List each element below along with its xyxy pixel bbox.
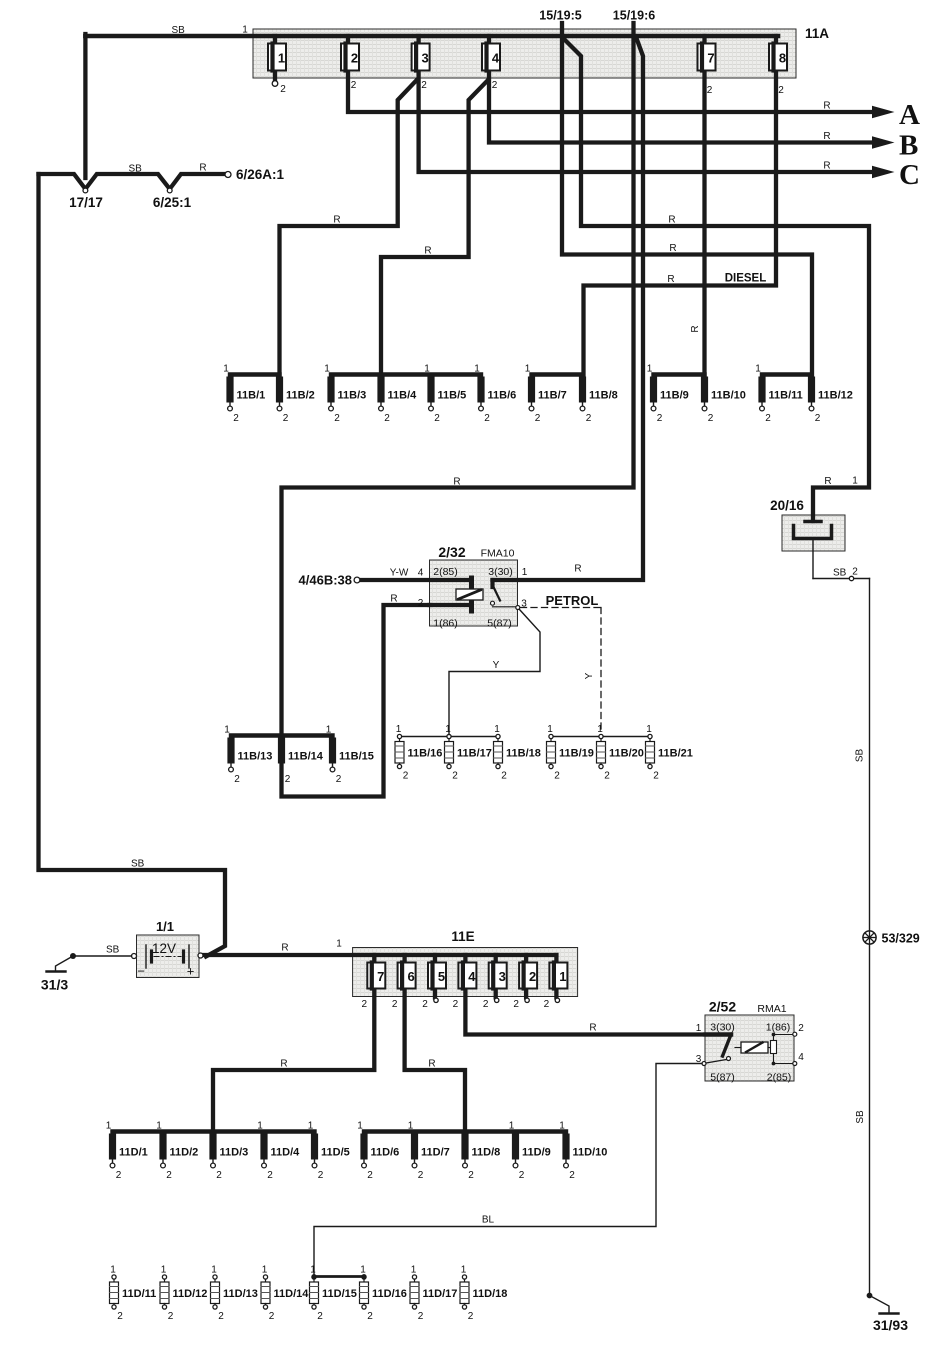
svg-text:2: 2	[367, 1311, 373, 1322]
svg-text:1(86): 1(86)	[433, 618, 458, 630]
svg-text:2: 2	[519, 1170, 525, 1181]
svg-text:6: 6	[407, 969, 414, 984]
svg-text:+: +	[187, 964, 195, 979]
svg-text:2: 2	[218, 1311, 224, 1322]
svg-text:2: 2	[384, 413, 390, 424]
svg-text:R: R	[823, 101, 830, 112]
svg-text:FMA10: FMA10	[481, 548, 515, 560]
svg-text:1: 1	[223, 364, 229, 375]
svg-text:1: 1	[308, 1121, 314, 1132]
svg-text:11D/13: 11D/13	[223, 1288, 258, 1300]
svg-text:11B/5: 11B/5	[438, 390, 467, 402]
svg-text:2: 2	[267, 1170, 273, 1181]
svg-text:1: 1	[242, 25, 248, 36]
svg-text:1: 1	[522, 567, 528, 578]
svg-text:11B/15: 11B/15	[339, 751, 374, 763]
svg-text:2: 2	[285, 774, 291, 785]
svg-text:SB: SB	[172, 25, 186, 36]
svg-text:11D/7: 11D/7	[421, 1147, 450, 1159]
svg-text:15/19:6: 15/19:6	[613, 9, 655, 23]
svg-text:11D/2: 11D/2	[170, 1147, 199, 1159]
svg-text:31/3: 31/3	[41, 977, 68, 993]
svg-text:11B/19: 11B/19	[559, 748, 594, 760]
svg-text:2: 2	[234, 774, 240, 785]
svg-text:11B/16: 11B/16	[408, 748, 443, 760]
svg-text:11B/3: 11B/3	[338, 390, 367, 402]
svg-text:2: 2	[334, 413, 340, 424]
svg-text:2: 2	[708, 413, 714, 424]
svg-text:SB: SB	[129, 164, 143, 175]
svg-text:2: 2	[765, 413, 771, 424]
svg-text:4: 4	[798, 1052, 804, 1063]
svg-text:1: 1	[326, 725, 332, 736]
svg-text:11D/9: 11D/9	[522, 1147, 551, 1159]
svg-text:Y: Y	[584, 672, 595, 679]
svg-text:1: 1	[852, 476, 858, 487]
svg-text:1: 1	[597, 724, 603, 735]
svg-text:1(86): 1(86)	[766, 1022, 791, 1034]
svg-text:1: 1	[357, 1121, 363, 1132]
svg-text:11D/17: 11D/17	[423, 1288, 458, 1300]
svg-text:5: 5	[438, 969, 445, 984]
svg-text:7: 7	[377, 969, 384, 984]
svg-text:11B/13: 11B/13	[238, 751, 273, 763]
svg-text:11B/8: 11B/8	[589, 390, 618, 402]
svg-text:1: 1	[310, 1265, 316, 1276]
svg-text:4: 4	[418, 568, 424, 579]
svg-text:RMA1: RMA1	[757, 1003, 786, 1015]
svg-text:2: 2	[569, 1170, 575, 1181]
svg-text:11B/20: 11B/20	[609, 748, 644, 760]
svg-text:11B/10: 11B/10	[711, 390, 746, 402]
svg-text:R: R	[281, 943, 288, 954]
svg-text:11E: 11E	[451, 929, 474, 944]
svg-text:1: 1	[559, 969, 566, 984]
svg-text:2: 2	[166, 1170, 172, 1181]
svg-text:3: 3	[499, 969, 506, 984]
svg-text:SB: SB	[106, 945, 120, 956]
svg-text:Y: Y	[493, 660, 500, 671]
svg-text:1: 1	[106, 1121, 112, 1132]
svg-text:17/17: 17/17	[69, 195, 103, 210]
svg-text:3: 3	[696, 1054, 702, 1065]
svg-text:2: 2	[468, 1311, 474, 1322]
svg-text:1: 1	[262, 1265, 268, 1276]
svg-text:11D/15: 11D/15	[322, 1288, 357, 1300]
svg-text:1: 1	[424, 364, 430, 375]
svg-text:1: 1	[509, 1121, 515, 1132]
svg-text:1: 1	[411, 1265, 417, 1276]
svg-text:R: R	[667, 274, 674, 285]
svg-text:3: 3	[521, 599, 527, 610]
svg-text:11D/6: 11D/6	[371, 1147, 400, 1159]
svg-text:2: 2	[604, 771, 610, 782]
svg-text:2: 2	[418, 1170, 424, 1181]
svg-text:1: 1	[547, 724, 553, 735]
svg-text:2: 2	[403, 771, 409, 782]
svg-text:2: 2	[367, 1170, 373, 1181]
svg-text:2: 2	[535, 413, 541, 424]
svg-text:6/26A:1: 6/26A:1	[236, 167, 285, 182]
svg-text:R: R	[333, 215, 340, 226]
svg-text:1: 1	[360, 1265, 366, 1276]
svg-text:2: 2	[501, 771, 507, 782]
svg-text:2: 2	[351, 80, 357, 91]
svg-text:11B/9: 11B/9	[660, 390, 689, 402]
svg-text:SB: SB	[131, 859, 145, 870]
svg-text:R: R	[574, 564, 581, 575]
svg-text:11B/17: 11B/17	[457, 748, 492, 760]
svg-text:2: 2	[418, 1311, 424, 1322]
svg-text:2: 2	[778, 85, 784, 96]
svg-text:2(85): 2(85)	[767, 1072, 792, 1084]
svg-text:11B/11: 11B/11	[769, 390, 803, 402]
svg-text:1: 1	[396, 724, 402, 735]
svg-text:1: 1	[461, 1265, 467, 1276]
svg-text:2: 2	[351, 51, 358, 66]
svg-text:R: R	[824, 476, 831, 487]
svg-text:1: 1	[474, 364, 480, 375]
svg-text:2: 2	[216, 1170, 222, 1181]
svg-text:20/16: 20/16	[770, 498, 804, 513]
svg-text:1: 1	[494, 724, 500, 735]
svg-text:11D/1: 11D/1	[119, 1147, 148, 1159]
svg-text:2: 2	[653, 771, 659, 782]
svg-text:1: 1	[755, 364, 761, 375]
svg-text:1: 1	[278, 51, 285, 66]
svg-text:11B/18: 11B/18	[506, 748, 541, 760]
svg-text:2: 2	[434, 413, 440, 424]
svg-text:11D/3: 11D/3	[220, 1147, 249, 1159]
svg-text:2: 2	[852, 567, 858, 578]
svg-text:15/19:5: 15/19:5	[539, 9, 581, 23]
svg-text:53/329: 53/329	[882, 932, 920, 946]
svg-text:2(85): 2(85)	[433, 566, 458, 578]
svg-text:5(87): 5(87)	[487, 618, 512, 630]
svg-text:SB: SB	[855, 1110, 866, 1124]
svg-text:1: 1	[257, 1121, 263, 1132]
svg-text:2: 2	[116, 1170, 122, 1181]
svg-text:11D/12: 11D/12	[173, 1288, 208, 1300]
svg-text:11B/2: 11B/2	[286, 390, 315, 402]
svg-text:1: 1	[647, 364, 653, 375]
svg-text:3(30): 3(30)	[488, 566, 513, 578]
svg-text:2: 2	[544, 999, 550, 1010]
svg-text:2: 2	[707, 85, 713, 96]
svg-text:7: 7	[707, 51, 714, 66]
svg-text:2: 2	[483, 999, 489, 1010]
svg-text:SB: SB	[833, 568, 847, 579]
svg-text:2: 2	[362, 999, 368, 1010]
svg-text:2: 2	[318, 1170, 324, 1181]
svg-text:4: 4	[468, 969, 476, 984]
svg-text:Y-W: Y-W	[390, 568, 409, 579]
svg-text:4/46B:38: 4/46B:38	[299, 573, 352, 588]
svg-text:C: C	[899, 159, 920, 191]
svg-text:1: 1	[525, 364, 531, 375]
svg-text:1: 1	[324, 364, 330, 375]
svg-text:1: 1	[110, 1265, 116, 1276]
svg-text:2: 2	[815, 413, 821, 424]
svg-text:2: 2	[513, 999, 519, 1010]
svg-text:2: 2	[418, 598, 424, 609]
svg-text:2: 2	[554, 771, 560, 782]
svg-text:R: R	[424, 246, 431, 257]
svg-text:1: 1	[445, 724, 451, 735]
svg-text:2: 2	[168, 1311, 174, 1322]
svg-text:1: 1	[646, 724, 652, 735]
svg-text:2: 2	[117, 1311, 123, 1322]
svg-text:2: 2	[233, 413, 239, 424]
svg-text:R: R	[280, 1059, 287, 1070]
svg-text:R: R	[669, 243, 676, 254]
svg-text:2: 2	[422, 999, 428, 1010]
svg-text:11D/18: 11D/18	[473, 1288, 508, 1300]
svg-text:2: 2	[317, 1311, 323, 1322]
svg-text:R: R	[668, 215, 675, 226]
svg-text:11A: 11A	[805, 26, 829, 41]
svg-text:1: 1	[156, 1121, 162, 1132]
svg-text:1: 1	[211, 1265, 217, 1276]
svg-text:R: R	[589, 1023, 596, 1034]
svg-text:1: 1	[559, 1121, 565, 1132]
svg-text:11B/12: 11B/12	[818, 390, 853, 402]
svg-text:1: 1	[161, 1265, 167, 1276]
svg-text:2: 2	[392, 999, 398, 1010]
svg-text:2: 2	[280, 84, 286, 95]
svg-text:R: R	[823, 131, 830, 142]
svg-text:BL: BL	[482, 1215, 495, 1226]
svg-text:2: 2	[657, 413, 663, 424]
svg-text:R: R	[428, 1059, 435, 1070]
svg-text:R: R	[390, 594, 397, 605]
svg-text:11B/21: 11B/21	[658, 748, 693, 760]
svg-text:2: 2	[492, 80, 498, 91]
svg-text:2: 2	[529, 969, 536, 984]
svg-text:11D/16: 11D/16	[372, 1288, 407, 1300]
svg-text:11B/1: 11B/1	[237, 390, 266, 402]
svg-text:11D/5: 11D/5	[321, 1147, 350, 1159]
svg-text:A: A	[899, 99, 920, 131]
svg-text:2: 2	[453, 999, 459, 1010]
svg-text:11D/8: 11D/8	[472, 1147, 501, 1159]
svg-text:11B/14: 11B/14	[288, 751, 324, 763]
svg-text:3(30): 3(30)	[710, 1022, 735, 1034]
svg-text:11B/4: 11B/4	[388, 390, 418, 402]
svg-text:8: 8	[779, 51, 786, 66]
svg-text:2: 2	[283, 413, 289, 424]
svg-text:6/25:1: 6/25:1	[153, 195, 192, 210]
svg-text:4: 4	[492, 51, 500, 66]
svg-text:12V: 12V	[152, 941, 176, 956]
svg-text:R: R	[823, 161, 830, 172]
svg-text:1: 1	[696, 1023, 702, 1034]
svg-text:11D/4: 11D/4	[271, 1147, 301, 1159]
svg-text:PETROL: PETROL	[546, 593, 599, 608]
svg-text:R: R	[453, 477, 460, 488]
svg-text:3: 3	[421, 51, 428, 66]
svg-text:11B/7: 11B/7	[538, 390, 567, 402]
svg-text:DIESEL: DIESEL	[725, 273, 767, 285]
svg-text:31/93: 31/93	[873, 1317, 908, 1333]
svg-text:R: R	[690, 325, 701, 332]
svg-text:R: R	[199, 163, 206, 174]
svg-text:5(87): 5(87)	[710, 1072, 735, 1084]
svg-text:2/52: 2/52	[709, 999, 736, 1015]
svg-text:2: 2	[336, 774, 342, 785]
svg-text:11B/6: 11B/6	[488, 390, 517, 402]
svg-text:2: 2	[484, 413, 490, 424]
svg-text:11D/11: 11D/11	[122, 1288, 156, 1300]
svg-text:2: 2	[421, 80, 427, 91]
svg-text:−: −	[137, 964, 145, 979]
svg-text:2: 2	[798, 1023, 804, 1034]
svg-text:1: 1	[336, 939, 342, 950]
svg-text:2: 2	[468, 1170, 474, 1181]
svg-text:11D/10: 11D/10	[573, 1147, 608, 1159]
svg-text:2: 2	[452, 771, 458, 782]
svg-text:11D/14: 11D/14	[274, 1288, 310, 1300]
svg-text:2: 2	[269, 1311, 275, 1322]
svg-text:1: 1	[408, 1121, 414, 1132]
svg-text:1: 1	[224, 725, 230, 736]
svg-text:1/1: 1/1	[156, 919, 174, 934]
svg-text:SB: SB	[855, 749, 866, 763]
svg-text:2/32: 2/32	[438, 544, 465, 560]
svg-text:2: 2	[586, 413, 592, 424]
svg-text:B: B	[899, 130, 918, 162]
